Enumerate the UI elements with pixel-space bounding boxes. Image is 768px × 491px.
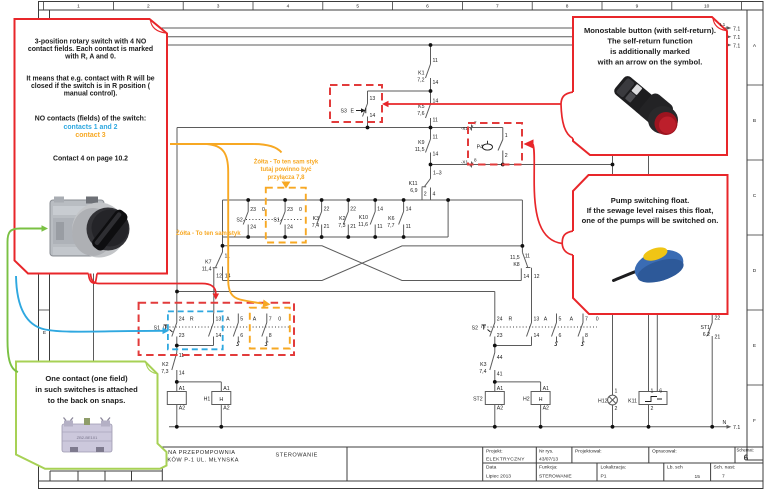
svg-text:H12: H12	[598, 399, 608, 405]
svg-text:S3: S3	[341, 109, 347, 115]
svg-text:is additionally marked: is additionally marked	[610, 47, 690, 56]
svg-text:15: 15	[695, 474, 701, 480]
svg-text:14: 14	[534, 333, 540, 339]
svg-text:14: 14	[377, 207, 383, 213]
svg-text:A: A	[253, 317, 257, 323]
svg-text:P1: P1	[601, 474, 607, 480]
svg-text:1: 1	[505, 133, 508, 139]
svg-text:ZB2-BE101: ZB2-BE101	[77, 435, 98, 440]
svg-text:3-position rotary switch with: 3-position rotary switch with 4 NO	[35, 39, 147, 46]
svg-text:A: A	[544, 317, 548, 323]
svg-text:7,4: 7,4	[479, 369, 486, 375]
svg-text:Sch. nast:: Sch. nast:	[714, 465, 736, 471]
svg-text:A: A	[226, 317, 230, 323]
svg-text:13: 13	[534, 317, 540, 323]
svg-text:24: 24	[179, 317, 185, 323]
svg-text:contact fields. Each contact i: contact fields. Each contact is marked	[28, 46, 153, 53]
svg-text:A2: A2	[223, 406, 229, 412]
svg-text:closed if the switch is in R p: closed if the switch is in R position (	[31, 83, 151, 90]
svg-text:If the sewage level raises thi: If the sewage level raises this float,	[587, 206, 714, 215]
svg-text:12: 12	[534, 274, 540, 280]
svg-text:2: 2	[651, 406, 654, 412]
svg-text:A2: A2	[179, 406, 185, 412]
svg-text:1: 1	[77, 4, 80, 10]
svg-text:Żółta - To ten sam styk: Żółta - To ten sam styk	[176, 230, 241, 237]
svg-text:H2: H2	[523, 397, 530, 403]
svg-text:in such switches is attached: in such switches is attached	[35, 385, 138, 394]
svg-text:14: 14	[216, 333, 222, 339]
svg-text:14: 14	[179, 371, 185, 377]
svg-text:11: 11	[433, 118, 438, 124]
svg-text:R: R	[190, 317, 194, 323]
svg-text:A2: A2	[543, 406, 549, 412]
svg-text:44: 44	[497, 355, 503, 361]
svg-text:K3: K3	[480, 362, 486, 368]
svg-text:S1-: S1-	[273, 218, 281, 224]
svg-text:one of the pumps will be switc: one of the pumps will be switched on.	[582, 216, 719, 225]
svg-text:0: 0	[262, 207, 265, 213]
svg-text:K8: K8	[513, 262, 519, 268]
svg-text:tutaj powinno być: tutaj powinno być	[261, 167, 313, 173]
svg-text:24: 24	[287, 225, 293, 231]
svg-text:11: 11	[433, 58, 438, 64]
svg-text:K9: K9	[418, 140, 424, 146]
svg-text:21: 21	[715, 335, 721, 341]
svg-text:10: 10	[704, 4, 710, 10]
svg-text:21: 21	[350, 224, 356, 230]
svg-text:contacts 1 and 2: contacts 1 and 2	[64, 124, 118, 131]
svg-text:7.1: 7.1	[733, 425, 740, 431]
svg-text:ELEKTRYCZNY: ELEKTRYCZNY	[486, 457, 525, 463]
svg-text:11: 11	[525, 254, 530, 260]
svg-text:The self-return function: The self-return function	[607, 36, 693, 45]
svg-text:4: 4	[287, 4, 290, 10]
svg-text:7.1: 7.1	[733, 35, 740, 41]
svg-text:5: 5	[559, 317, 562, 323]
svg-text:E: E	[351, 109, 355, 115]
svg-text:11,6: 11,6	[358, 222, 368, 228]
svg-text:12: 12	[216, 274, 222, 280]
svg-text:7: 7	[269, 317, 272, 323]
svg-text:Lb. sch: Lb. sch	[667, 465, 683, 471]
svg-text:K11: K11	[409, 181, 418, 187]
svg-text:przyłącza 7,8: przyłącza 7,8	[267, 175, 305, 181]
svg-text:A1: A1	[543, 386, 549, 392]
svg-text:Żółta - To ten sam styk: Żółta - To ten sam styk	[254, 159, 319, 166]
svg-text:Projektował:: Projektował:	[575, 449, 602, 455]
svg-text:7,3: 7,3	[161, 369, 168, 375]
svg-text:11,5: 11,5	[510, 255, 520, 261]
svg-text:14: 14	[370, 113, 376, 119]
svg-text:0: 0	[278, 317, 281, 323]
svg-text:1: 1	[615, 389, 618, 395]
svg-text:ST2: ST2	[473, 397, 483, 403]
svg-text:11,4: 11,4	[202, 267, 212, 273]
svg-text:B: B	[753, 118, 756, 124]
svg-text:K7: K7	[205, 260, 211, 266]
svg-text:NO contacts (fields) of the sw: NO contacts (fields) of the switch:	[35, 116, 146, 123]
svg-text:K2: K2	[162, 362, 168, 368]
svg-text:Pump switching float.: Pump switching float.	[611, 196, 689, 205]
svg-text:7,2: 7,2	[417, 78, 424, 84]
svg-text:Contact 4 on page 10.2: Contact 4 on page 10.2	[53, 156, 128, 163]
svg-text:23: 23	[179, 333, 185, 339]
svg-text:8: 8	[474, 158, 477, 163]
svg-text:It means that e.g. contact wit: It means that e.g. contact with R will b…	[26, 76, 154, 83]
svg-text:1: 1	[651, 389, 654, 395]
svg-text:H: H	[219, 397, 223, 403]
svg-text:7: 7	[585, 317, 588, 323]
svg-text:Nr rys.: Nr rys.	[539, 449, 553, 455]
svg-text:7,3: 7,3	[338, 223, 345, 229]
svg-text:11: 11	[225, 254, 230, 260]
svg-text:23: 23	[287, 207, 293, 213]
svg-text:6: 6	[559, 333, 562, 339]
svg-text:11,5: 11,5	[415, 147, 425, 153]
svg-text:11: 11	[406, 224, 411, 230]
svg-text:H1: H1	[204, 397, 211, 403]
svg-text:9: 9	[636, 4, 639, 10]
svg-text:8: 8	[269, 333, 272, 339]
svg-text:14: 14	[406, 207, 412, 213]
svg-text:0: 0	[596, 317, 599, 323]
svg-text:One contact (one field): One contact (one field)	[45, 374, 128, 383]
svg-text:11: 11	[377, 224, 382, 230]
svg-text:Lokalizacja:: Lokalizacja:	[601, 465, 627, 471]
svg-text:24: 24	[497, 317, 503, 323]
svg-text:Monostable button (with self-r: Monostable button (with self-return).	[584, 26, 716, 35]
svg-text:11: 11	[433, 135, 438, 141]
svg-text:S2: S2	[472, 326, 478, 332]
svg-text:Lipiec 2013: Lipiec 2013	[486, 474, 511, 480]
svg-text:5: 5	[240, 317, 243, 323]
svg-text:2: 2	[505, 153, 508, 159]
svg-text:S2-: S2-	[236, 218, 244, 224]
svg-text:STEROWANIE: STEROWANIE	[539, 474, 572, 480]
svg-text:7,6: 7,6	[417, 111, 424, 117]
svg-text:K2: K2	[339, 216, 345, 222]
svg-text:43/07/13: 43/07/13	[539, 457, 558, 463]
svg-text:C: C	[753, 193, 757, 199]
svg-text:R: R	[509, 317, 513, 323]
svg-text:with an arrow on the symbol.: with an arrow on the symbol.	[597, 57, 703, 66]
svg-text:contact 3: contact 3	[75, 132, 105, 139]
svg-text:L1: L1	[720, 22, 726, 28]
svg-text:6,9: 6,9	[410, 188, 417, 194]
svg-text:Funkcja:: Funkcja:	[539, 465, 557, 471]
svg-text:6: 6	[426, 4, 429, 10]
svg-text:A: A	[570, 317, 574, 323]
svg-text:A1: A1	[497, 386, 503, 392]
svg-text:5: 5	[356, 4, 359, 10]
svg-text:STEROWANIE: STEROWANIE	[276, 453, 318, 459]
svg-text:K5: K5	[418, 104, 424, 110]
svg-text:P4: P4	[477, 145, 483, 151]
svg-text:7,4: 7,4	[312, 223, 319, 229]
svg-text:21: 21	[324, 224, 330, 230]
svg-text:1–3: 1–3	[433, 171, 442, 177]
svg-text:41: 41	[497, 372, 503, 378]
svg-text:A1: A1	[223, 386, 229, 392]
svg-text:Opracował:: Opracował:	[652, 449, 677, 455]
svg-text:A2: A2	[497, 406, 503, 412]
svg-text:K11: K11	[628, 399, 637, 405]
svg-text:to the back on snaps.: to the back on snaps.	[48, 396, 126, 405]
svg-text:Schemat:: Schemat:	[737, 448, 754, 453]
svg-text:Projekt:: Projekt:	[486, 449, 503, 455]
svg-text:13: 13	[216, 317, 222, 323]
svg-text:H: H	[539, 397, 543, 403]
svg-text:24: 24	[250, 225, 256, 231]
svg-text:N: N	[723, 420, 727, 426]
svg-text:6: 6	[659, 389, 662, 395]
svg-text:2: 2	[147, 4, 150, 10]
svg-text:F: F	[753, 418, 756, 424]
svg-text:22: 22	[324, 207, 330, 213]
svg-text:K6: K6	[388, 216, 394, 222]
svg-text:22: 22	[350, 207, 356, 213]
svg-text:0: 0	[299, 207, 302, 213]
svg-text:ST1: ST1	[700, 325, 710, 331]
svg-text:7: 7	[496, 4, 499, 10]
svg-text:manual control).: manual control).	[64, 91, 118, 98]
svg-text:7.1: 7.1	[733, 26, 740, 32]
svg-text:6: 6	[240, 333, 243, 339]
svg-text:8: 8	[566, 4, 569, 10]
svg-text:13: 13	[370, 96, 376, 102]
svg-text:14: 14	[433, 80, 439, 86]
svg-text:23: 23	[497, 333, 503, 339]
svg-text:14: 14	[523, 274, 529, 280]
svg-text:7.1: 7.1	[733, 43, 740, 49]
svg-text:2: 2	[615, 406, 618, 412]
svg-text:Data: Data	[486, 465, 497, 471]
svg-text:A1: A1	[179, 386, 185, 392]
svg-text:K1: K1	[418, 71, 424, 77]
svg-text:2: 2	[424, 192, 427, 198]
svg-text:K3: K3	[313, 216, 319, 222]
svg-text:K10: K10	[359, 215, 368, 221]
svg-text:with R, A and 0.: with R, A and 0.	[64, 54, 116, 61]
svg-text:14: 14	[433, 152, 439, 158]
svg-text:3: 3	[217, 4, 220, 10]
svg-text:22: 22	[715, 316, 721, 322]
svg-text:7,7: 7,7	[387, 223, 394, 229]
svg-text:E: E	[43, 330, 46, 336]
svg-text:8: 8	[585, 333, 588, 339]
svg-text:D: D	[753, 268, 757, 274]
svg-text:23: 23	[250, 207, 256, 213]
svg-text:E: E	[753, 343, 756, 349]
svg-text:7: 7	[722, 474, 725, 480]
svg-text:6,2: 6,2	[703, 332, 710, 338]
svg-text:6: 6	[744, 454, 749, 463]
svg-text:4: 4	[433, 192, 436, 198]
